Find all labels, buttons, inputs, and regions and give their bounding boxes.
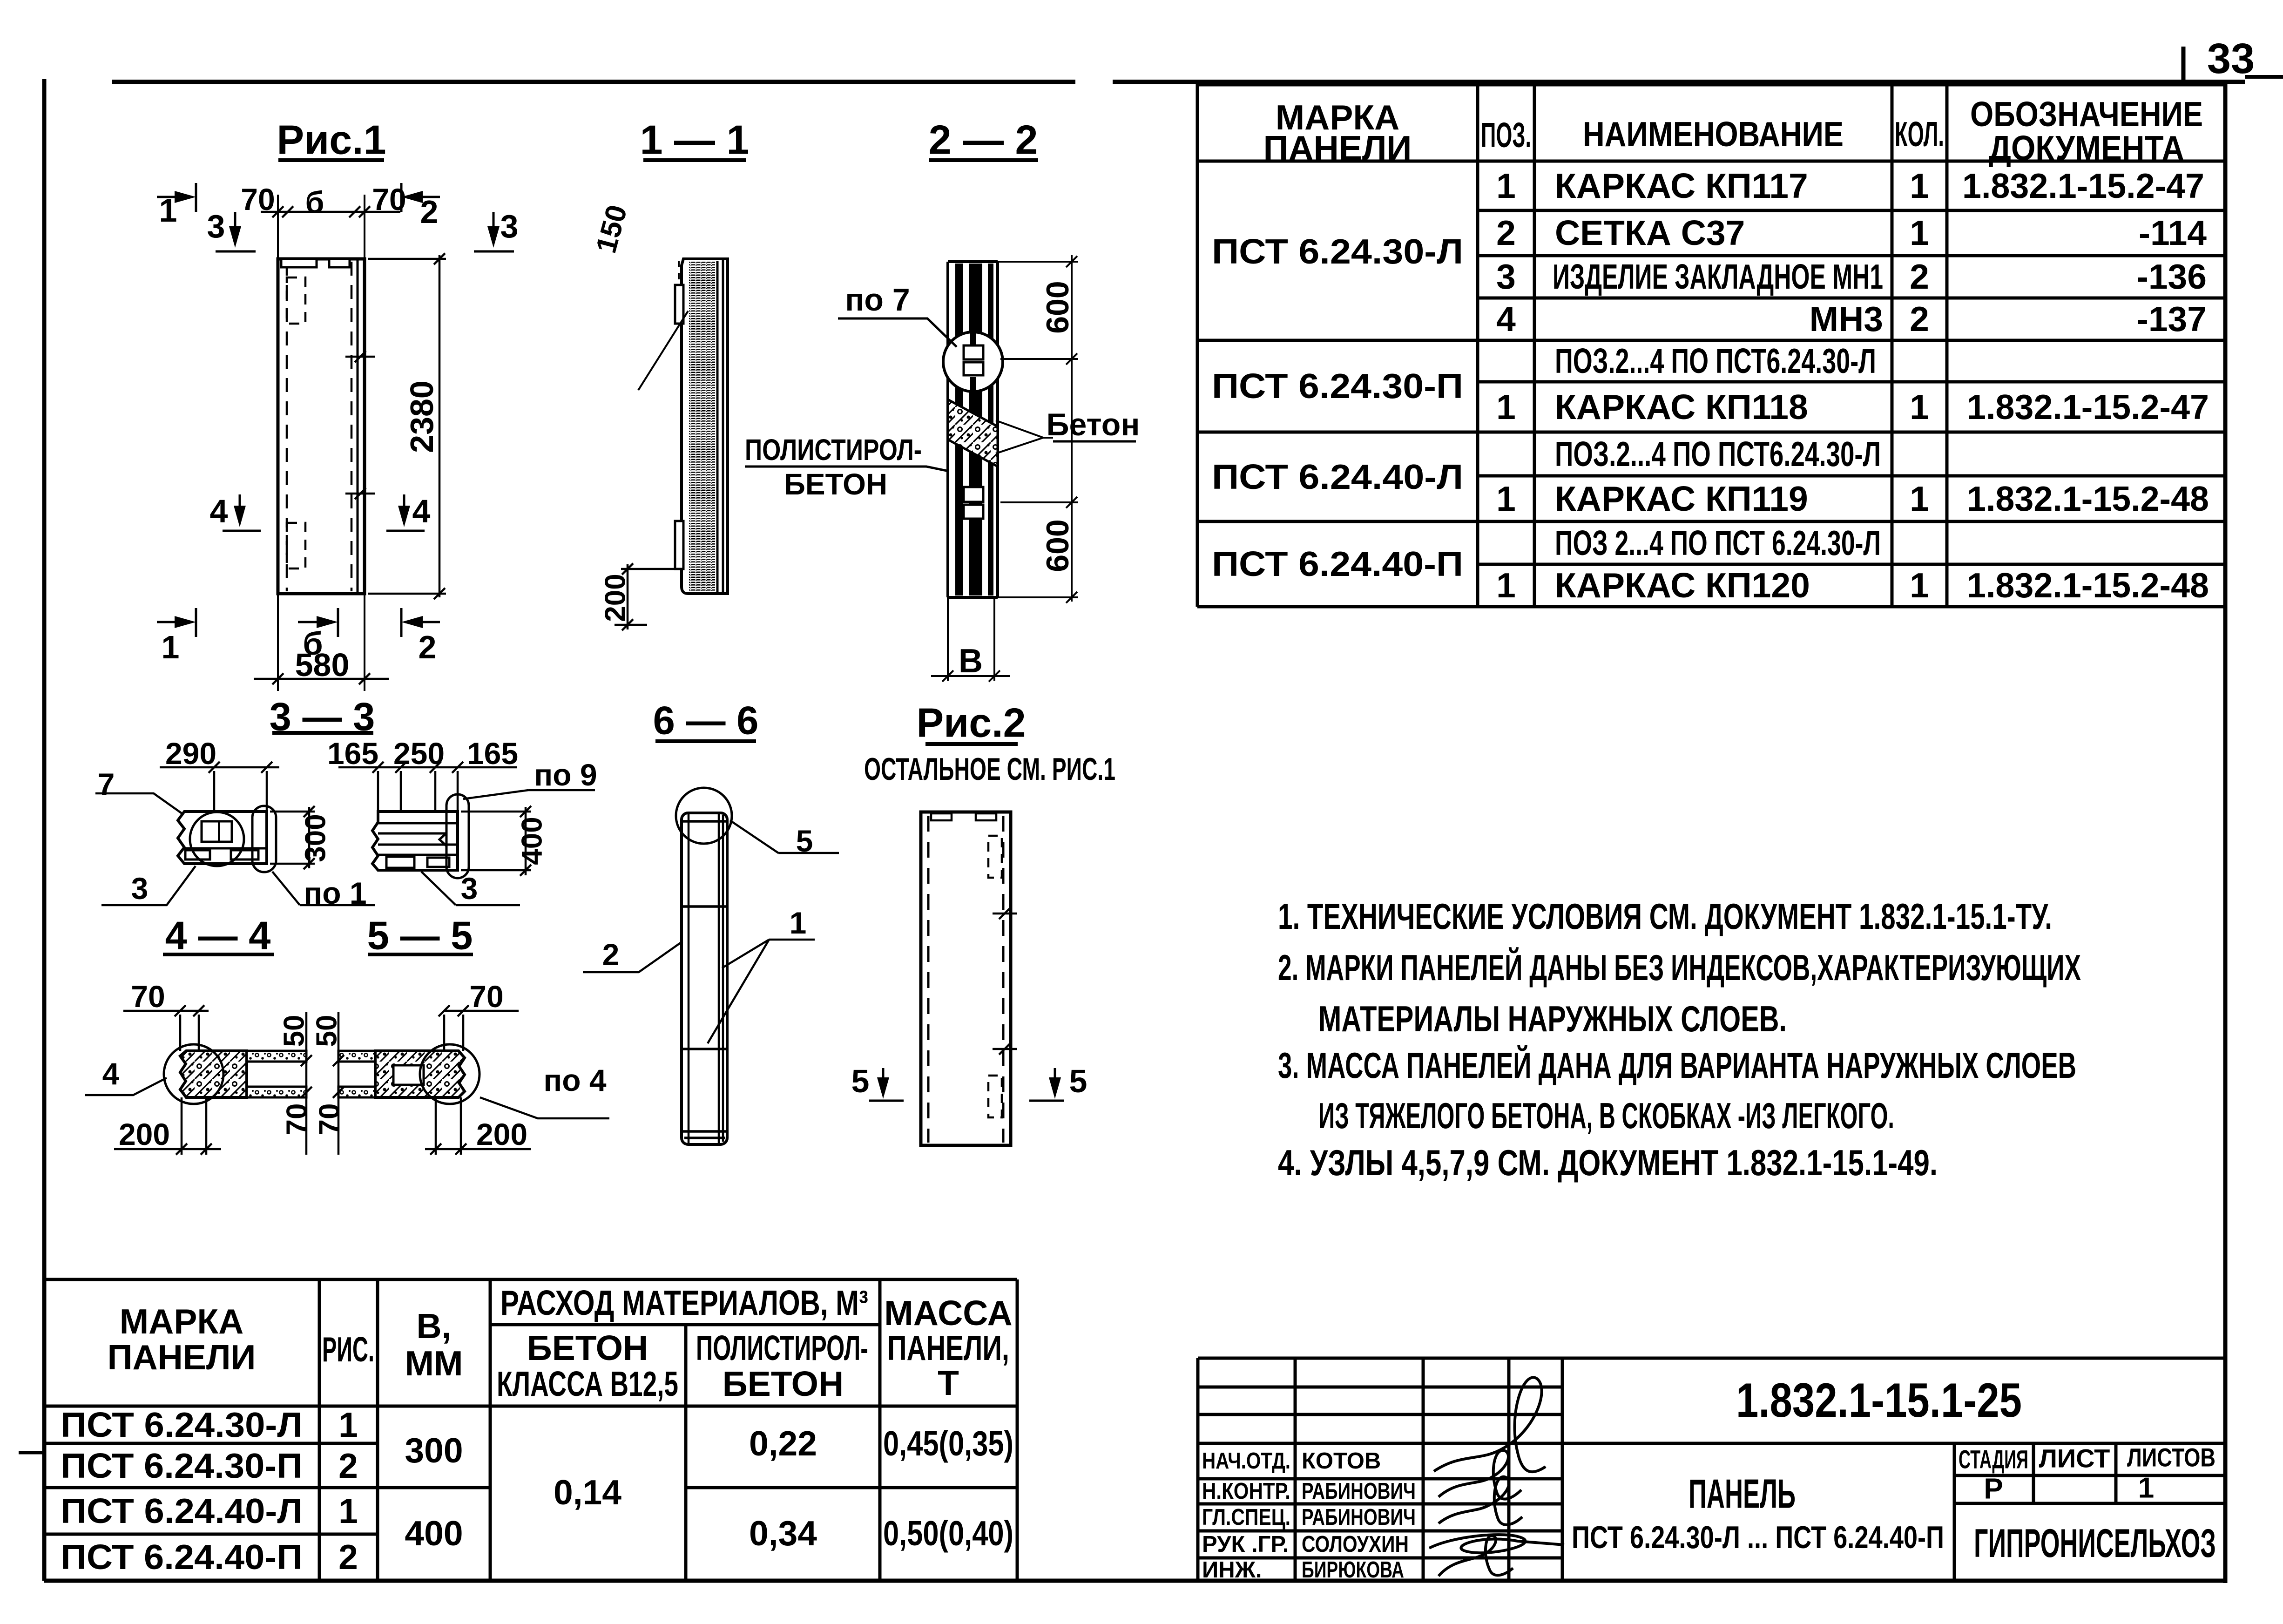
- svg-text:4. УЗЛЫ 4,5,7,9 СМ. ДОКУМЕНТ 1: 4. УЗЛЫ 4,5,7,9 СМ. ДОКУМЕНТ 1.832.1-15.…: [1278, 1142, 1938, 1183]
- svg-text:2: 2: [1910, 299, 1929, 338]
- 3-3 left block shelf: [184, 847, 267, 850]
- svg-text:СЕТКА С37: СЕТКА С37: [1555, 213, 1745, 252]
- svg-text:РАБИНОВИЧ: РАБИНОВИЧ: [1302, 1505, 1416, 1530]
- 2-2 body outline: [948, 262, 998, 597]
- svg-text:1 — 1: 1 — 1: [640, 117, 750, 163]
- 5-5 block dims 165 250 165: [338, 762, 517, 844]
- svg-text:1: 1: [1496, 166, 1516, 205]
- svg-text:Бетон: Бетон: [1047, 407, 1140, 442]
- svg-text:РАБИНОВИЧ: РАБИНОВИЧ: [1302, 1479, 1416, 1504]
- 3-3 node circle: [190, 812, 244, 866]
- svg-text:МАССА: МАССА: [884, 1293, 1012, 1333]
- svg-text:0,34: 0,34: [749, 1514, 817, 1553]
- svg-text:6 — 6: 6 — 6: [653, 699, 759, 743]
- Fig.1 section mark b bottom: [298, 608, 338, 637]
- Fig.1 top notch left: [281, 259, 317, 267]
- svg-text:Рис.2: Рис.2: [916, 700, 1026, 746]
- title block grid: [1198, 1358, 2227, 1582]
- svg-text:-136: -136: [2137, 257, 2207, 296]
- svg-text:ПОЛИСТИРОЛ-: ПОЛИСТИРОЛ-: [745, 433, 922, 467]
- title block roles: [1202, 1448, 1290, 1583]
- svg-text:1.832.1-15.2-47: 1.832.1-15.2-47: [1967, 387, 2209, 426]
- svg-text:ЛИСТ: ЛИСТ: [2039, 1444, 2110, 1473]
- left margin tick: [19, 1451, 44, 1455]
- materials table header: [108, 1283, 1013, 1403]
- svg-text:В,: В,: [417, 1306, 452, 1346]
- 1-1 left bump bottom: [675, 521, 683, 569]
- Fig.1 section mark 1 bottom: [157, 608, 196, 637]
- svg-text:КОЛ.: КОЛ.: [1895, 115, 1944, 154]
- 2-2 node 2 plates: [964, 487, 983, 502]
- Fig.1 embedded part top (dashed): [287, 277, 305, 324]
- svg-text:ПОЗ.2...4 ПО ПСТ6.24.30-Л: ПОЗ.2...4 ПО ПСТ6.24.30-Л: [1555, 434, 1881, 474]
- 1-1 leader line: [638, 311, 688, 390]
- svg-text:250: 250: [393, 736, 445, 771]
- top-right short edge mark: [2245, 75, 2283, 79]
- title block names: [1302, 1448, 1416, 1583]
- materials table grid: [44, 1279, 1017, 1579]
- svg-text:1: 1: [1496, 479, 1516, 518]
- svg-text:Т: Т: [938, 1363, 959, 1402]
- svg-text:-137: -137: [2137, 299, 2207, 338]
- svg-text:165: 165: [327, 736, 378, 771]
- 2-2 node circle po7: [943, 332, 1003, 392]
- Fig.1 dashed axis left: [286, 262, 288, 591]
- signature Kotov: [1434, 1377, 1546, 1472]
- 5-5 dim 400: [461, 806, 531, 876]
- svg-text:НАЧ.ОТД.: НАЧ.ОТД.: [1202, 1448, 1290, 1474]
- Fig.1 section mark 2 top: [401, 183, 440, 212]
- 3-3 dim 290: [160, 762, 279, 810]
- Fig.1 dashed axis right: [351, 262, 353, 591]
- svg-text:СТАДИЯ: СТАДИЯ: [1959, 1445, 2028, 1474]
- svg-text:ПСТ 6.24.40-Л: ПСТ 6.24.40-Л: [61, 1491, 303, 1530]
- spec table poz and qty: [1496, 166, 1929, 605]
- svg-text:МАТЕРИАЛЫ НАРУЖНЫХ СЛОЕВ.: МАТЕРИАЛЫ НАРУЖНЫХ СЛОЕВ.: [1318, 998, 1787, 1039]
- svg-text:1: 1: [159, 192, 177, 229]
- svg-text:3: 3: [500, 208, 519, 244]
- 3-3 capsule callout: [252, 806, 276, 872]
- svg-text:200: 200: [476, 1117, 527, 1151]
- svg-text:ПОЗ.: ПОЗ.: [1481, 115, 1531, 155]
- spec table mark column: [1212, 232, 1463, 583]
- Fig.1 top notch right: [329, 259, 350, 267]
- svg-text:ПАНЕЛЬ: ПАНЕЛЬ: [1689, 1471, 1796, 1517]
- 5-5 block layers: [378, 823, 458, 855]
- materials table rows: [61, 1405, 1013, 1577]
- svg-text:-114: -114: [2139, 213, 2207, 252]
- svg-text:1: 1: [1496, 387, 1516, 426]
- svg-text:300: 300: [300, 814, 332, 862]
- svg-text:1: 1: [1910, 479, 1929, 518]
- Fig.1 lifting point marks: [345, 351, 375, 499]
- svg-text:33: 33: [2207, 35, 2255, 82]
- svg-text:Н.КОНТР.: Н.КОНТР.: [1202, 1479, 1290, 1504]
- svg-text:ДОКУМЕНТА: ДОКУМЕНТА: [1989, 129, 2184, 168]
- svg-text:НАИМЕНОВАНИЕ: НАИМЕНОВАНИЕ: [1583, 115, 1844, 154]
- Fig.1 section mark 4 right: [386, 494, 425, 531]
- 4-4 middle top strip left: [247, 1051, 306, 1062]
- svg-text:2: 2: [420, 194, 439, 230]
- 2-2 concrete bar left: [955, 264, 963, 595]
- svg-text:ПСТ 6.24.30-П: ПСТ 6.24.30-П: [61, 1446, 303, 1485]
- 5-5 middle bottom strip right: [338, 1087, 375, 1097]
- svg-text:50: 50: [278, 1015, 311, 1047]
- svg-text:5: 5: [851, 1063, 870, 1099]
- 6-6 node circle: [676, 788, 732, 844]
- 3-3 dim 300: [270, 806, 315, 869]
- 1-1 top dashed edge: [678, 261, 680, 286]
- 5-5 right hatched block: [375, 1051, 465, 1097]
- svg-text:1: 1: [1910, 213, 1929, 252]
- svg-text:ИЗ ТЯЖЕЛОГО БЕТОНА, В СКОБКАХ: ИЗ ТЯЖЕЛОГО БЕТОНА, В СКОБКАХ -ИЗ ЛЕГКОГ…: [1318, 1095, 1894, 1136]
- svg-text:1: 1: [2138, 1472, 2154, 1504]
- svg-text:2: 2: [1496, 213, 1516, 252]
- 5-5 callout circle right: [420, 1044, 480, 1104]
- 5-5 block outline: [372, 812, 458, 870]
- svg-text:МАРКА: МАРКА: [120, 1302, 244, 1341]
- svg-text:600: 600: [1040, 519, 1075, 572]
- 5-5 middle top strip right: [338, 1051, 375, 1062]
- svg-text:4: 4: [1496, 299, 1516, 338]
- svg-text:0,22: 0,22: [749, 1424, 817, 1463]
- svg-text:по 7: по 7: [845, 282, 910, 318]
- svg-text:70: 70: [281, 1103, 313, 1136]
- svg-text:2 — 2: 2 — 2: [929, 117, 1038, 163]
- Fig.1 dim 70-b-70: [261, 206, 400, 217]
- svg-text:МН3: МН3: [1810, 299, 1883, 338]
- svg-text:1.832.1-15.2-48: 1.832.1-15.2-48: [1967, 479, 2209, 518]
- signature Rabinovich 1: [1439, 1450, 1521, 1499]
- svg-text:70: 70: [131, 979, 165, 1014]
- svg-text:ПСТ 6.24.30-Л ... ПСТ 6.24.40-: ПСТ 6.24.30-Л ... ПСТ 6.24.40-П: [1572, 1520, 1944, 1555]
- svg-text:2: 2: [338, 1446, 358, 1485]
- 2-2 bottom extensions and dim B: [931, 597, 1010, 682]
- 4-4 left hatched block: [180, 1051, 247, 1097]
- svg-text:ИНЖ.: ИНЖ.: [1202, 1557, 1262, 1583]
- svg-text:200: 200: [119, 1117, 170, 1151]
- 5-5 anchor plates: [386, 857, 414, 868]
- svg-text:200: 200: [600, 574, 632, 622]
- Fig.1 top extension lines: [278, 195, 365, 259]
- svg-text:580: 580: [295, 647, 350, 683]
- svg-text:КАРКАС КП117: КАРКАС КП117: [1555, 166, 1808, 205]
- svg-text:165: 165: [467, 736, 518, 771]
- Fig.2 section mark 5 right: [1029, 1068, 1064, 1101]
- svg-text:1: 1: [790, 906, 807, 940]
- svg-text:400: 400: [405, 1514, 463, 1553]
- svg-text:2. МАРКИ ПАНЕЛЕЙ ДАНЫ БЕЗ ИНДЕ: 2. МАРКИ ПАНЕЛЕЙ ДАНЫ БЕЗ ИНДЕКСОВ,ХАРАК…: [1278, 947, 2081, 988]
- 3-3 left block outline: [178, 812, 267, 864]
- 4-4 middle bottom strip left: [247, 1087, 306, 1097]
- Fig.2 embedded part top (dashed): [988, 836, 1002, 878]
- svg-text:ПСТ 6.24.40-Л: ПСТ 6.24.40-Л: [1212, 457, 1463, 496]
- sheet left border: [42, 79, 47, 1581]
- 4-4 dim 200 left: [114, 1097, 221, 1155]
- 5-5 channel white: [393, 1065, 424, 1085]
- svg-text:КАРКАС КП119: КАРКАС КП119: [1555, 479, 1808, 518]
- svg-text:400: 400: [516, 817, 548, 865]
- 6-6 inner verticals: [689, 814, 723, 1144]
- 6-6 cross bars: [682, 821, 727, 1138]
- svg-text:б: б: [305, 185, 324, 219]
- 6-6 frame outline: [682, 813, 727, 1144]
- svg-text:4: 4: [210, 493, 228, 529]
- Fig.2 panel outline: [921, 812, 1011, 1145]
- svg-text:0,14: 0,14: [554, 1473, 621, 1512]
- Fig.2 top notch right: [976, 813, 996, 820]
- svg-text:2: 2: [419, 629, 437, 665]
- 2-2 node 1 plates: [964, 345, 983, 359]
- svg-text:ПАНЕЛИ: ПАНЕЛИ: [1263, 129, 1412, 168]
- Fig.1 embedded part bottom (dashed): [287, 523, 305, 568]
- svg-text:ПАНЕЛИ,: ПАНЕЛИ,: [887, 1328, 1009, 1367]
- Fig.2 dashed edge right: [1002, 816, 1005, 1143]
- svg-text:1. ТЕХНИЧЕСКИЕ УСЛОВИЯ СМ. ДОК: 1. ТЕХНИЧЕСКИЕ УСЛОВИЯ СМ. ДОКУМЕНТ 1.83…: [1278, 896, 2052, 937]
- spec table name column: [1553, 166, 1883, 605]
- Fig.1 section mark 4 left: [223, 494, 261, 531]
- svg-text:ПСТ 6.24.30-Л: ПСТ 6.24.30-Л: [61, 1405, 303, 1444]
- svg-text:БЕТОН: БЕТОН: [527, 1328, 648, 1367]
- svg-text:4 — 4: 4 — 4: [165, 914, 271, 958]
- svg-text:1: 1: [1910, 166, 1929, 205]
- 2-2 concrete bar middle: [969, 264, 982, 595]
- signature Solouhin: [1429, 1535, 1564, 1553]
- Fig.2 lifting marks: [993, 908, 1017, 1055]
- svg-text:ММ: ММ: [405, 1344, 463, 1383]
- spec table document column: [1962, 166, 2209, 605]
- page number tick: [2182, 47, 2186, 80]
- svg-text:3: 3: [1496, 257, 1516, 296]
- svg-text:КАРКАС КП120: КАРКАС КП120: [1555, 566, 1810, 605]
- sheet bottom border: [44, 1579, 2227, 1583]
- svg-text:3: 3: [131, 871, 149, 906]
- svg-text:1: 1: [1496, 566, 1516, 605]
- 3-3 left block anchor plates: [185, 850, 210, 859]
- 5-5 dim 200 right: [425, 1097, 531, 1155]
- svg-text:2: 2: [338, 1537, 358, 1577]
- 1-1 left bump top: [675, 285, 683, 324]
- notes block: [1278, 896, 2081, 1183]
- svg-text:ОБОЗНАЧЕНИЕ: ОБОЗНАЧЕНИЕ: [1970, 95, 2203, 134]
- Fig.1 section mark 3 right: [474, 212, 514, 251]
- svg-text:5 — 5: 5 — 5: [367, 914, 473, 958]
- svg-text:4: 4: [102, 1056, 120, 1091]
- svg-text:3: 3: [207, 208, 225, 244]
- svg-text:0,50(0,40): 0,50(0,40): [883, 1514, 1013, 1553]
- svg-text:1.832.1-15.2-48: 1.832.1-15.2-48: [1967, 566, 2209, 605]
- signature Rabinovich 2: [1439, 1477, 1522, 1525]
- svg-text:РИС.: РИС.: [322, 1330, 374, 1369]
- svg-text:4: 4: [412, 493, 431, 529]
- svg-text:по 4: по 4: [543, 1063, 607, 1097]
- svg-text:ПАНЕЛИ: ПАНЕЛИ: [108, 1338, 256, 1377]
- svg-text:БИРЮКОВА: БИРЮКОВА: [1302, 1557, 1404, 1583]
- svg-text:КАРКАС КП118: КАРКАС КП118: [1555, 387, 1808, 426]
- 1-1 inner double line: [717, 260, 723, 593]
- svg-text:Рис.1: Рис.1: [277, 117, 386, 163]
- svg-text:ГИПРОНИСЕЛЬХОЗ: ГИПРОНИСЕЛЬХОЗ: [1974, 1521, 2216, 1566]
- svg-text:РУК .ГР.: РУК .ГР.: [1202, 1532, 1289, 1557]
- svg-text:1: 1: [1910, 387, 1929, 426]
- svg-text:3: 3: [461, 871, 478, 906]
- svg-text:70: 70: [241, 182, 275, 217]
- 5-5 block notch: [439, 833, 446, 846]
- 5-5 dim 70 right: [439, 1005, 519, 1051]
- svg-text:1.832.1-15.1-25: 1.832.1-15.1-25: [1736, 1374, 2022, 1428]
- svg-text:70: 70: [314, 1103, 346, 1136]
- svg-text:50: 50: [311, 1015, 343, 1047]
- svg-text:2: 2: [602, 937, 620, 972]
- 1-1 body outline: [682, 259, 728, 594]
- sheet top border: [112, 80, 2245, 84]
- Fig.1 section mark 2 bottom: [401, 608, 440, 637]
- Fig.2 top notch left: [931, 813, 952, 820]
- sheet right border: [2223, 82, 2228, 1583]
- Fig.1 dim 580: [254, 673, 389, 684]
- 2-2 concrete bar right: [988, 264, 993, 595]
- specification table grid: [1197, 84, 2225, 607]
- Fig.1 bottom extension lines: [278, 594, 365, 691]
- svg-text:2380: 2380: [404, 380, 440, 453]
- svg-text:БЕТОН: БЕТОН: [723, 1364, 844, 1403]
- svg-text:70: 70: [469, 979, 503, 1014]
- 1-1 texture strip: [689, 262, 715, 591]
- spec table header text: [1263, 95, 2203, 168]
- svg-text:БЕТОН: БЕТОН: [784, 467, 887, 501]
- signature Biryukova: [1439, 1536, 1513, 1576]
- 4-4 break lines 50/50: [301, 1012, 344, 1155]
- svg-text:0,45(0,35): 0,45(0,35): [883, 1424, 1013, 1463]
- svg-text:ПОЛИСТИРОЛ-: ПОЛИСТИРОЛ-: [696, 1328, 868, 1367]
- svg-text:ИЗДЕЛИЕ ЗАКЛАДНОЕ МН1: ИЗДЕЛИЕ ЗАКЛАДНОЕ МН1: [1553, 257, 1883, 296]
- svg-text:ЛИСТОВ: ЛИСТОВ: [2127, 1443, 2215, 1472]
- svg-text:ПСТ 6.24.40-П: ПСТ 6.24.40-П: [61, 1537, 303, 1577]
- svg-text:1: 1: [338, 1405, 358, 1444]
- svg-text:300: 300: [405, 1431, 463, 1470]
- Fig.2 section mark 5 left: [869, 1068, 904, 1101]
- svg-text:ПОЗ 2...4 ПО ПСТ 6.24.30-Л: ПОЗ 2...4 ПО ПСТ 6.24.30-Л: [1555, 523, 1881, 562]
- svg-text:ПСТ 6.24.30-П: ПСТ 6.24.30-П: [1212, 366, 1463, 406]
- svg-text:5: 5: [1069, 1063, 1087, 1099]
- Fig.1 panel outline: [278, 259, 365, 594]
- svg-text:1.832.1-15.2-47: 1.832.1-15.2-47: [1962, 166, 2204, 205]
- svg-text:7: 7: [98, 767, 115, 801]
- 1-1 dim 200: [615, 563, 682, 630]
- title block stage cells: [1959, 1443, 2215, 1505]
- svg-text:ПОЗ.2...4 ПО ПСТ6.24.30-Л: ПОЗ.2...4 ПО ПСТ6.24.30-Л: [1555, 341, 1876, 380]
- svg-text:КОТОВ: КОТОВ: [1302, 1448, 1381, 1474]
- svg-text:3. МАССА ПАНЕЛЕЙ ДАНА ДЛЯ ВАРИ: 3. МАССА ПАНЕЛЕЙ ДАНА ДЛЯ ВАРИАНТА НАРУЖ…: [1278, 1045, 2076, 1086]
- 5-5 capsule callout: [446, 794, 469, 878]
- 4-4 callout circle left: [164, 1044, 223, 1104]
- 4-4 dim 70 left: [123, 1005, 209, 1051]
- svg-text:ПСТ 6.24.30-Л: ПСТ 6.24.30-Л: [1212, 232, 1463, 271]
- svg-text:1: 1: [1910, 566, 1929, 605]
- svg-text:Р: Р: [1984, 1473, 2003, 1505]
- 3-3 left block channel: [202, 821, 232, 842]
- Fig.2 embedded part bottom (dashed): [988, 1076, 1002, 1117]
- Fig.1 section mark 3 left: [216, 212, 256, 251]
- Fig.1 inner right line: [357, 259, 359, 594]
- svg-text:290: 290: [165, 736, 216, 771]
- svg-text:2: 2: [1910, 257, 1929, 296]
- 2-2 right dim line 600/600: [998, 255, 1078, 603]
- svg-text:ГЛ.СПЕЦ.: ГЛ.СПЕЦ.: [1202, 1505, 1290, 1530]
- svg-text:В: В: [959, 643, 983, 680]
- svg-text:1: 1: [338, 1491, 358, 1530]
- svg-text:ОСТАЛЬНОЕ СМ. РИС.1: ОСТАЛЬНОЕ СМ. РИС.1: [864, 751, 1115, 787]
- Fig.2 dashed edge left: [927, 816, 930, 1143]
- svg-text:по 9: по 9: [534, 758, 597, 792]
- svg-text:ПСТ 6.24.40-П: ПСТ 6.24.40-П: [1212, 544, 1463, 583]
- svg-text:1: 1: [162, 629, 180, 665]
- svg-text:600: 600: [1040, 281, 1075, 333]
- svg-text:КЛАССА В12,5: КЛАССА В12,5: [497, 1364, 678, 1403]
- 2-2 polystyrene band: [948, 399, 998, 467]
- Fig.1 dim 2380: [368, 253, 446, 599]
- Fig.1 section mark 1 top: [157, 183, 196, 212]
- svg-text:СОЛОУХИН: СОЛОУХИН: [1302, 1532, 1409, 1557]
- svg-text:РАСХОД МАТЕРИАЛОВ, М³: РАСХОД МАТЕРИАЛОВ, М³: [500, 1283, 868, 1322]
